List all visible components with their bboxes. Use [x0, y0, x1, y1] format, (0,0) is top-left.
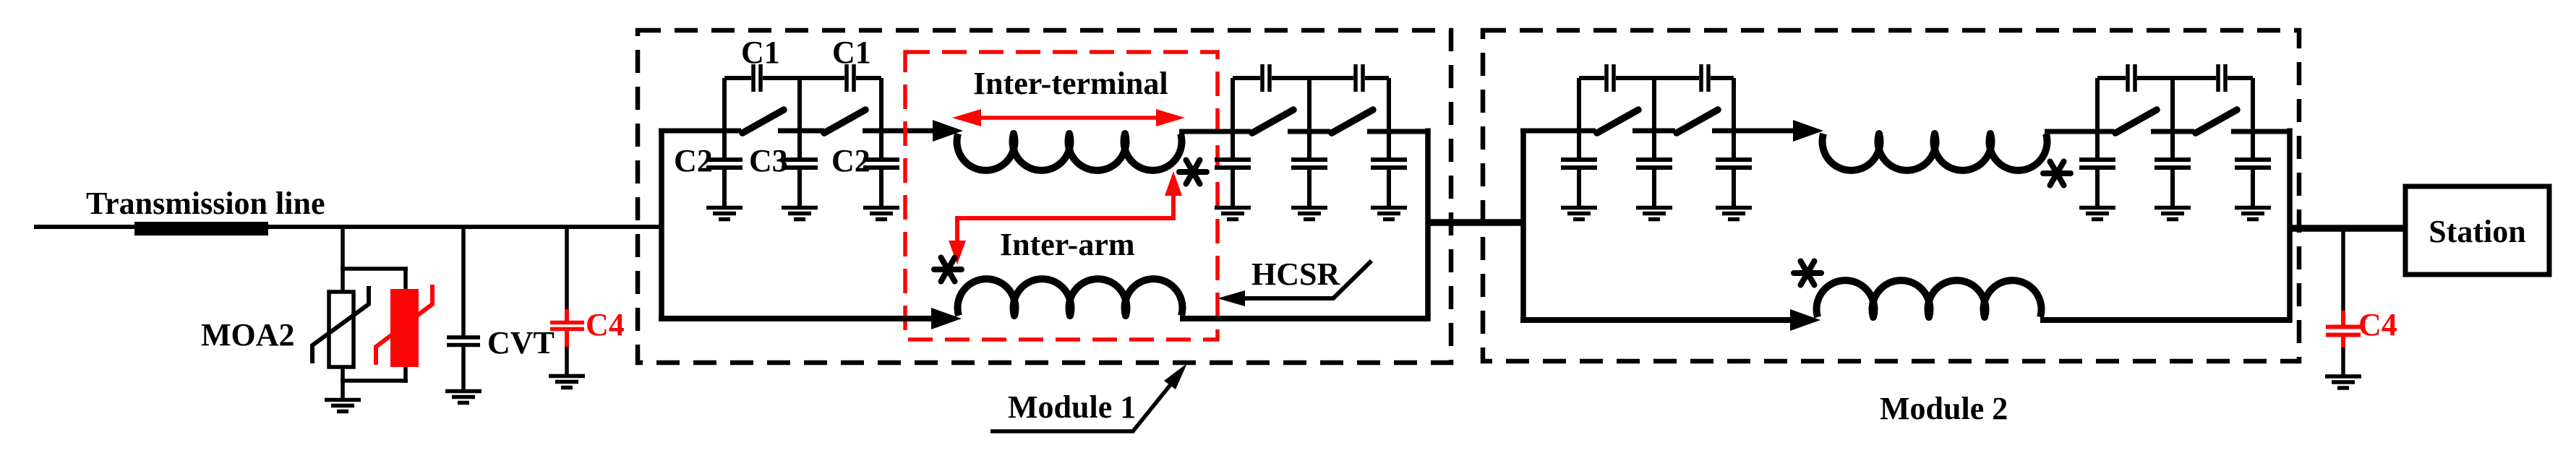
capacitor module 2 right post 12 [2235, 131, 2271, 208]
wire C4 left red stub bottom [565, 330, 569, 347]
inductor inter-terminal (module 1 top) [957, 134, 1181, 170]
wire top cap bus segment [1711, 76, 1734, 80]
wire top cap bus segment [2097, 76, 2126, 80]
wire MOA2 left drop [341, 269, 345, 293]
capacitor C3 [782, 131, 818, 208]
svg-text:C4: C4 [2358, 307, 2397, 342]
capacitor module 2 right first [2128, 64, 2135, 92]
wire riser post 9 [1732, 78, 1736, 133]
station box [2405, 186, 2549, 275]
module 1 pointer underline and arrow [990, 383, 1172, 431]
wire top branch segment [1288, 129, 1330, 134]
inductor module 2 bottom [1817, 280, 2042, 317]
wire module 2 left vertical [1520, 129, 1526, 323]
capacitor module 1 right post 6 [1371, 131, 1407, 208]
capacitor module 2 left first [1606, 64, 1614, 92]
svg-text:MOA2: MOA2 [201, 317, 295, 353]
polarity dot * module 2 top [2043, 162, 2071, 186]
capacitor C4 right (red) [2326, 327, 2361, 335]
wire top cap bus segment [763, 76, 844, 80]
wire C4 right ground stem [2341, 347, 2345, 376]
wire top cap bus segment [1233, 76, 1260, 80]
capacitor C1 (first) [753, 64, 761, 92]
arrowhead into inter-terminal inductor [933, 120, 963, 142]
inductor module 2 top [1823, 134, 2047, 170]
switch S5 blade [1597, 110, 1638, 133]
wire top cap bus segment [2228, 76, 2253, 80]
wire top cap bus segment [1616, 76, 1699, 80]
module 2 dashed border [1483, 30, 2299, 361]
red arrowhead up [1165, 171, 1182, 196]
ground C4 left [549, 376, 585, 388]
wire top branch segment [778, 129, 824, 134]
ground [1716, 208, 1752, 220]
svg-text:CVT: CVT [487, 325, 555, 360]
switch S6 blade [1677, 110, 1718, 133]
wire top cap bus segment [2137, 76, 2216, 80]
wire top branch segment [1712, 129, 1799, 134]
wire riser post 12 [2251, 78, 2255, 133]
wire C4 left drop [565, 225, 569, 311]
wire top branch segment [2151, 129, 2194, 134]
svg-text:C2: C2 [674, 143, 713, 178]
capacitor module 2 left second [1701, 64, 1708, 92]
red coupling arrow path [957, 195, 1173, 243]
wire module 2 right vertical [2287, 129, 2293, 323]
capacitor module 1 right post 4 [1215, 131, 1251, 208]
wire top cap bus segment [856, 76, 881, 80]
ground [1215, 208, 1251, 220]
wire top cap bus segment [1579, 76, 1604, 80]
wire top branch segment [1179, 129, 1251, 134]
capacitor module 2 left post 8 [1636, 131, 1672, 208]
ground [1291, 208, 1327, 220]
wire top cap bus segment [1365, 76, 1389, 80]
svg-text:C2: C2 [831, 143, 870, 178]
arrowhead into module 2 top inductor [1793, 120, 1823, 142]
capacitor C1 (second) [847, 64, 854, 92]
capacitor C4 left (red) [550, 323, 584, 329]
wire riser post 7 [1577, 78, 1581, 133]
wire riser post 8 [1652, 78, 1656, 133]
capacitor (module 1 right, first) [1262, 64, 1270, 92]
wire bottom arm segment [1180, 316, 1430, 321]
polarity dot * module 2 bottom [1794, 262, 1821, 285]
svg-text:C3: C3 [749, 143, 788, 178]
wire bottom arm segment [659, 316, 937, 321]
capacitor CVT [447, 337, 480, 345]
wire module 2 bottom arm segment [1520, 317, 1796, 323]
ground C4 right [2325, 376, 2361, 388]
wire riser post 3 [879, 78, 883, 133]
svg-text:Inter-terminal: Inter-terminal [973, 66, 1168, 101]
wire module 2 bottom arm segment [2040, 317, 2292, 323]
ground [863, 208, 899, 220]
ground CVT [445, 392, 482, 403]
capacitor module 2 left post 7 [1561, 131, 1597, 208]
wire riser post 2 [797, 78, 802, 133]
wire riser post 6 [1387, 78, 1391, 133]
wire C4 right red stub bottom [2341, 337, 2345, 348]
wire MOA2 right drop [403, 269, 408, 291]
arrowhead into module 2 bottom inductor [1790, 309, 1820, 331]
ground [782, 208, 818, 220]
wire MOA2 right bottom [403, 367, 408, 383]
svg-text:HCSR: HCSR [1251, 256, 1340, 292]
wire CVT drop [461, 225, 466, 336]
varistor MOA2 red diagonal [376, 285, 432, 365]
ground [1371, 208, 1407, 220]
wire top cap bus segment [1272, 76, 1353, 80]
capacitor C2 (left) [706, 131, 743, 208]
switch S8 blade [2196, 110, 2237, 133]
wire MOA2 bottom bar [341, 379, 408, 383]
wire top branch segment [2231, 129, 2292, 134]
svg-text:Inter-arm: Inter-arm [1000, 227, 1135, 262]
red dashed box inter-terminal/inter-arm [905, 52, 1218, 340]
wire C4 right drop [2341, 228, 2345, 312]
polarity dot * bottom inductor [934, 258, 962, 282]
wire riser post 5 [1307, 78, 1311, 133]
red arrowhead down [949, 241, 966, 264]
wire CVT ground stem [461, 347, 466, 391]
capacitor module 1 right post 5 [1291, 131, 1327, 208]
varistor MOA2 black diagonal [312, 286, 369, 363]
svg-text:Module 1: Module 1 [1008, 389, 1136, 425]
wire MOA2 left bottom [341, 367, 345, 383]
wire C4 left red stub top [565, 309, 569, 321]
svg-text:Station: Station [2429, 214, 2525, 249]
wire top branch segment [2045, 129, 2114, 134]
varistor MOA2 black body [329, 292, 354, 367]
svg-text:Transmission line: Transmission line [86, 186, 325, 221]
ground [2079, 208, 2115, 220]
ground [2235, 208, 2271, 220]
switch S3 blade [1252, 110, 1293, 133]
capacitor module 2 right second [2218, 64, 2225, 92]
svg-text:C1: C1 [741, 35, 780, 70]
wire top branch segment [1520, 129, 1596, 134]
polarity dot * top inductor [1179, 160, 1207, 184]
wire MOA2 top bar [341, 267, 408, 271]
wire to station [2290, 225, 2408, 232]
wire top branch segment [863, 129, 938, 134]
svg-text:Module 2: Module 2 [1880, 391, 2008, 426]
wire top branch segment [1633, 129, 1675, 134]
HCSR pointer arrow [1229, 261, 1372, 298]
wire C4 right red stub top [2341, 311, 2345, 325]
wire riser post 1 [722, 78, 727, 133]
transmission line thick segment [134, 222, 268, 236]
wire module 1 right vertical [1425, 129, 1431, 321]
ground [706, 208, 743, 220]
wire module 1 left vertical [659, 129, 664, 321]
wire riser post 11 [2170, 78, 2175, 133]
red double arrow inter-terminal [952, 109, 1185, 126]
svg-text:C4: C4 [586, 307, 625, 342]
ground [1636, 208, 1672, 220]
svg-text:C1: C1 [832, 35, 871, 70]
arrowhead into inter-arm inductor [931, 308, 962, 329]
module 1 dashed border [638, 30, 1451, 363]
wire top branch segment [659, 129, 741, 134]
wire riser post 4 [1231, 78, 1235, 133]
varistor MOA2 red body [390, 289, 419, 367]
ground MOA2 [325, 400, 361, 412]
wire MOA2 drop [341, 225, 345, 269]
switch S7 blade [2115, 110, 2157, 133]
wire main transmission line [34, 225, 662, 229]
ground [2154, 208, 2191, 220]
switch S4 blade [1332, 110, 1373, 133]
inductor inter-arm (module 1 bottom) [958, 279, 1183, 316]
switch S1 blade [743, 110, 784, 133]
capacitor module 2 right post 10 [2079, 131, 2115, 208]
wire top cap bus segment [724, 76, 751, 80]
capacitor (module 1 right, second) [1356, 64, 1363, 92]
wire between modules [1428, 219, 1523, 226]
wire MOA2 ground stem [341, 381, 345, 399]
wire top branch segment [1367, 129, 1430, 134]
capacitor module 2 left post 9 [1716, 131, 1752, 208]
capacitor module 2 right post 11 [2154, 131, 2191, 208]
wire C4 left ground stem [565, 347, 569, 376]
capacitor C2 (right) [863, 131, 899, 208]
ground [1561, 208, 1597, 220]
wire riser post 10 [2095, 78, 2100, 133]
switch S2 blade [824, 110, 865, 133]
